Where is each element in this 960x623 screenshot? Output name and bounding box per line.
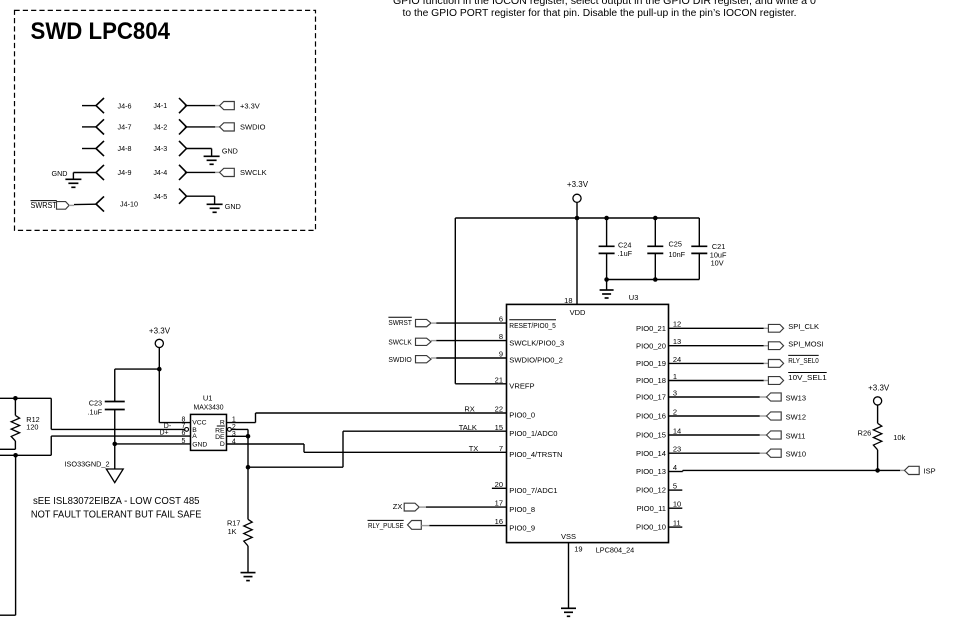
connector pin J4-1 xyxy=(179,98,187,113)
wire U3 pin 8 xyxy=(436,340,506,342)
svg-text:24: 24 xyxy=(673,355,681,364)
junction C23/GND pin xyxy=(112,442,117,447)
wire U3 pin 20 xyxy=(492,487,507,489)
junction R12 top xyxy=(13,396,18,401)
svg-text:C23: C23 xyxy=(89,399,102,408)
pin name RE (U1) xyxy=(215,426,225,434)
svg-text:NOT FAULT TOLERANT BUT FAIL SA: NOT FAULT TOLERANT BUT FAIL SAFE xyxy=(31,508,202,520)
inversion bubble U1 pin 7 (B) xyxy=(185,428,189,432)
wire U3 to SW11 xyxy=(669,434,767,436)
svg-text:VREFP: VREFP xyxy=(509,382,534,391)
svg-text:12: 12 xyxy=(673,320,681,329)
svg-text:PIO0_14: PIO0_14 xyxy=(636,449,666,458)
svg-text:10nF: 10nF xyxy=(669,250,686,259)
svg-text:SWCLK: SWCLK xyxy=(240,168,267,177)
connector pin J4-6 xyxy=(82,98,104,113)
ground (decoupling caps) xyxy=(600,280,614,299)
svg-text:RLY_PULSE: RLY_PULSE xyxy=(368,521,404,530)
svg-text:15: 15 xyxy=(495,423,503,432)
wire J4-1 to +3.3V tag xyxy=(185,105,220,107)
svg-text:VCC: VCC xyxy=(192,420,206,427)
net tag SW12 xyxy=(767,412,782,420)
ground (J4-9) xyxy=(65,173,81,188)
wire D+ rail xyxy=(0,454,51,456)
ground (J4-3) xyxy=(204,156,220,164)
wire TX (U1 D to U3 PIO0_4) xyxy=(227,444,305,452)
svg-text:PIO0_12: PIO0_12 xyxy=(636,486,666,495)
capacitor C21 xyxy=(691,218,707,280)
svg-text:PIO0_16: PIO0_16 xyxy=(636,412,666,421)
net tag SWRST (U3) xyxy=(388,317,436,327)
svg-text:U3: U3 xyxy=(629,293,639,302)
note text ISL83072 xyxy=(31,495,202,521)
resistor R17 xyxy=(244,467,252,572)
svg-text:8: 8 xyxy=(499,332,503,341)
junction at C24 xyxy=(604,216,609,221)
junction at C25 xyxy=(653,216,658,221)
junction cap bus at C24 xyxy=(604,277,609,282)
svg-text:1: 1 xyxy=(673,372,677,381)
wire U3 to SPI_CLK xyxy=(669,327,769,329)
IC U3 LPC804 body xyxy=(507,304,669,542)
svg-text:PIO0_20: PIO0_20 xyxy=(636,341,666,350)
dashed frame SWD LPC804 block xyxy=(15,10,316,230)
stub U3 pin 10 xyxy=(669,507,683,509)
net tag SW13 xyxy=(767,393,782,401)
pin name RESET/PIO0_5 xyxy=(509,320,556,330)
svg-text:SWDIO: SWDIO xyxy=(388,355,412,364)
wire D- rail xyxy=(0,397,51,399)
svg-text:VDD: VDD xyxy=(570,308,586,317)
wire U3 to SPI_MOSI xyxy=(669,345,769,347)
capacitor C23 xyxy=(105,369,125,469)
net tag RLY_PULSE xyxy=(368,520,430,529)
svg-text:GND: GND xyxy=(52,169,68,178)
svg-text:PIO0_1/ADC0: PIO0_1/ADC0 xyxy=(509,429,557,438)
connector pin J4-10 xyxy=(96,196,104,211)
wire RX (U1 R to U3 PIO0_0) xyxy=(227,413,256,423)
wire U3 pin 17 xyxy=(426,506,507,508)
net tag 10V_SEL1 xyxy=(768,377,783,385)
svg-text:10k: 10k xyxy=(893,433,905,442)
wire U3 to RLY_SEL0 xyxy=(669,362,769,364)
junction R17 top xyxy=(246,465,251,470)
svg-text:1K: 1K xyxy=(228,527,237,536)
svg-text:J4-7: J4-7 xyxy=(118,123,132,132)
wire J4-4 to SWCLK tag xyxy=(185,171,220,173)
net tag SWCLK (U3) xyxy=(388,338,436,347)
svg-text:R26: R26 xyxy=(858,428,872,437)
net tag RLY_SEL0 xyxy=(768,360,783,368)
svg-text:RESET/PIO0_5: RESET/PIO0_5 xyxy=(509,321,556,330)
svg-text:VSS: VSS xyxy=(561,532,576,541)
label 10V_SEL1 xyxy=(788,373,827,382)
svg-text:C24: C24 xyxy=(618,240,631,249)
wire J4-3 to ground xyxy=(187,149,212,157)
svg-text:PIO0_13: PIO0_13 xyxy=(636,467,666,476)
stub U3 pin 11 xyxy=(669,526,683,528)
IC U1 MAX3430 body xyxy=(191,414,227,450)
svg-text:LPC804_24: LPC804_24 xyxy=(596,546,635,555)
svg-text:PIO0_15: PIO0_15 xyxy=(636,431,666,440)
wire VSS pin 19 xyxy=(568,543,570,609)
svg-text:10: 10 xyxy=(673,500,681,509)
svg-text:7: 7 xyxy=(499,444,503,453)
net tag SW11 xyxy=(767,431,782,439)
connector pin J4-8 xyxy=(82,141,104,156)
wire U1 GND pin 5 xyxy=(115,443,191,445)
svg-text:J4-2: J4-2 xyxy=(153,123,167,132)
ground (R17) xyxy=(241,573,256,581)
svg-text:SWRST: SWRST xyxy=(31,201,58,210)
capacitor C24 xyxy=(599,218,615,280)
net tag ISP xyxy=(905,466,920,474)
wire U3 to SW12 xyxy=(669,415,767,417)
svg-text:+3.3V: +3.3V xyxy=(240,101,260,110)
net tag SWCLK (J4-4) xyxy=(220,168,235,176)
wire U3 to 10V_SEL1 xyxy=(669,380,769,382)
stub U3 pin 5 xyxy=(669,489,683,491)
svg-text:J4-3: J4-3 xyxy=(153,144,167,153)
wire VREFP feed xyxy=(455,218,506,384)
svg-text:ZX: ZX xyxy=(393,502,403,511)
capacitor C25 xyxy=(647,218,663,280)
svg-text:GND: GND xyxy=(192,441,207,448)
svg-text:D: D xyxy=(220,441,225,448)
wire VDD pin 18 xyxy=(576,218,578,304)
svg-text:.1uF: .1uF xyxy=(88,408,103,417)
svg-text:SPI_MOSI: SPI_MOSI xyxy=(788,340,823,349)
svg-text:RLY_SEL0: RLY_SEL0 xyxy=(788,356,819,365)
wire J4-5 to ground xyxy=(187,196,215,204)
note text: GPIO register instructions xyxy=(393,0,816,19)
svg-text:PIO0_8: PIO0_8 xyxy=(509,505,535,514)
svg-text:to the GPIO PORT register for: to the GPIO PORT register for that pin. … xyxy=(403,8,797,19)
svg-text:10V_SEL1: 10V_SEL1 xyxy=(788,373,827,382)
svg-text:.1uF: .1uF xyxy=(618,249,633,258)
svg-text:4: 4 xyxy=(673,463,677,472)
power symbol +3.3V (U1) xyxy=(149,326,171,369)
svg-text:+3.3V: +3.3V xyxy=(868,384,890,393)
svg-text:18: 18 xyxy=(564,296,572,305)
wire U3 pin 15 xyxy=(343,430,507,432)
svg-text:22: 22 xyxy=(495,405,503,414)
net tag SWRST xyxy=(31,201,75,211)
svg-text:3: 3 xyxy=(673,388,677,397)
junction R26/ISP xyxy=(875,468,880,473)
svg-text:J4-6: J4-6 xyxy=(118,101,132,110)
svg-text:SW10: SW10 xyxy=(786,450,806,459)
net tag +3.3V (J4-1) xyxy=(220,102,235,110)
svg-text:J4-9: J4-9 xyxy=(118,168,132,177)
wire DE to TALK/R17 xyxy=(248,431,343,467)
svg-text:+3.3V: +3.3V xyxy=(149,326,171,335)
svg-text:10V: 10V xyxy=(711,259,724,268)
svg-text:17: 17 xyxy=(495,499,503,508)
ground ISO33GND_2 triangle xyxy=(106,469,123,483)
wire U3 pin 16 xyxy=(429,525,506,527)
connector pin J4-2 xyxy=(179,119,187,134)
svg-text:PIO0_19: PIO0_19 xyxy=(636,359,666,368)
svg-text:ISO33GND_2: ISO33GND_2 xyxy=(65,460,110,469)
junction cap bus at C25 xyxy=(653,277,658,282)
wire RE to DE junction xyxy=(231,429,248,436)
svg-text:5: 5 xyxy=(673,482,677,491)
svg-text:SWCLK: SWCLK xyxy=(388,338,411,347)
svg-text:GND: GND xyxy=(222,146,238,155)
net tag SWDIO (J4-2) xyxy=(220,123,235,131)
net tag ZX xyxy=(393,502,426,511)
svg-text:16: 16 xyxy=(495,517,503,526)
svg-text:PIO0_0: PIO0_0 xyxy=(509,411,535,420)
net tag SPI_CLK xyxy=(768,324,783,332)
net tag SWDIO (U3) xyxy=(388,355,436,364)
wire left branch down xyxy=(0,455,16,615)
power symbol +3.3V (VDD rail) xyxy=(567,180,589,218)
wire U3 pin 22 xyxy=(256,412,507,414)
svg-text:GPIO function in the IOCON reg: GPIO function in the IOCON register, sel… xyxy=(393,0,816,7)
svg-text:SW13: SW13 xyxy=(786,393,806,402)
svg-text:SWRST: SWRST xyxy=(388,318,412,327)
svg-text:13: 13 xyxy=(673,337,681,346)
wire U3 pin 6 xyxy=(436,322,506,324)
svg-text:TX: TX xyxy=(469,444,479,453)
wire U3 to SW10 xyxy=(669,452,767,454)
svg-text:9: 9 xyxy=(499,350,503,359)
svg-text:J4-5: J4-5 xyxy=(153,192,167,201)
ground (VSS) xyxy=(561,608,576,616)
svg-text:J4-10: J4-10 xyxy=(120,200,138,209)
net tag SPI_MOSI xyxy=(768,342,783,350)
svg-text:19: 19 xyxy=(574,545,582,554)
wire +3.3V rail xyxy=(455,217,699,219)
svg-text:PIO0_18: PIO0_18 xyxy=(636,376,666,385)
label RLY_SEL0 xyxy=(788,355,819,364)
svg-text:U1: U1 xyxy=(203,394,213,403)
svg-text:SW12: SW12 xyxy=(786,412,806,421)
connector pin J4-5 xyxy=(179,189,187,204)
svg-text:J4-4: J4-4 xyxy=(153,168,167,177)
junction D+ branch xyxy=(13,453,18,458)
svg-text:PIO0_11: PIO0_11 xyxy=(637,504,666,513)
connector pin J4-9 xyxy=(96,165,104,180)
svg-text:14: 14 xyxy=(673,426,681,435)
svg-text:C25: C25 xyxy=(669,239,682,248)
svg-text:21: 21 xyxy=(495,375,503,384)
junction at VDD drop xyxy=(575,216,580,221)
wire J4-9 to ground xyxy=(73,172,96,174)
wire D+ to U1 A xyxy=(51,436,190,455)
svg-text:GND: GND xyxy=(225,202,241,211)
connector pin J4-4 xyxy=(179,165,187,180)
wire DE (U1 pin 3) xyxy=(227,435,249,437)
power symbol +3.3V (R26) xyxy=(868,384,890,424)
connector pin J4-7 xyxy=(82,119,104,134)
junction +3.3V/C23 xyxy=(157,367,162,372)
svg-text:PIO0_21: PIO0_21 xyxy=(636,324,666,333)
resistor R26 xyxy=(873,423,881,470)
wire +3.3V to C23 and VCC xyxy=(115,369,191,423)
svg-text:6: 6 xyxy=(499,315,503,324)
inversion bubble U1 pin 2 (RE) xyxy=(228,428,232,432)
wire SWRST to J4-10 xyxy=(74,203,96,205)
svg-text:SWDIO: SWDIO xyxy=(240,123,266,132)
junction RE/DE xyxy=(246,434,251,439)
svg-text:MAX3430: MAX3430 xyxy=(194,403,224,412)
svg-text:+3.3V: +3.3V xyxy=(567,180,589,189)
svg-text:SPI_CLK: SPI_CLK xyxy=(788,322,819,331)
svg-text:A: A xyxy=(192,433,197,440)
svg-text:SW11: SW11 xyxy=(786,431,806,440)
svg-text:PIO0_10: PIO0_10 xyxy=(636,523,666,532)
svg-text:TALK: TALK xyxy=(459,423,477,432)
svg-text:SWCLK/PIO0_3: SWCLK/PIO0_3 xyxy=(509,338,564,347)
svg-text:ISP: ISP xyxy=(924,466,936,475)
svg-text:PIO0_7/ADC1: PIO0_7/ADC1 xyxy=(509,486,557,495)
svg-text:PIO0_17: PIO0_17 xyxy=(636,393,666,402)
svg-text:11: 11 xyxy=(673,519,681,528)
svg-text:2: 2 xyxy=(673,407,677,416)
ground (J4-5) xyxy=(207,204,223,212)
svg-text:J4-1: J4-1 xyxy=(153,101,167,110)
svg-text:PIO0_4/TRSTN: PIO0_4/TRSTN xyxy=(509,450,562,459)
wire PIO0_13 to ISP xyxy=(669,470,905,471)
net tag SW10 xyxy=(767,449,782,457)
svg-text:PIO0_9: PIO0_9 xyxy=(509,523,535,532)
wire D- to U1 B xyxy=(51,398,184,429)
wire capacitor ground bus xyxy=(607,279,700,281)
svg-text:6: 6 xyxy=(181,430,185,437)
svg-text:sEE ISL83072EIBZA - LOW COST 4: sEE ISL83072EIBZA - LOW COST 485 xyxy=(33,495,200,507)
svg-text:SWD LPC804: SWD LPC804 xyxy=(31,18,171,45)
wire U3 to SW13 xyxy=(669,396,767,398)
svg-text:120: 120 xyxy=(26,422,38,431)
connector pin J4-3 xyxy=(179,141,187,156)
svg-text:SWDIO/PIO0_2: SWDIO/PIO0_2 xyxy=(509,356,563,365)
wire J4-2 to SWDIO tag xyxy=(185,126,220,128)
svg-text:J4-8: J4-8 xyxy=(118,144,132,153)
wire U3 pin 7 xyxy=(304,451,507,453)
svg-text:D+: D+ xyxy=(160,430,169,437)
svg-text:20: 20 xyxy=(495,480,503,489)
svg-text:RX: RX xyxy=(464,405,474,414)
resistor R12 xyxy=(0,398,20,449)
svg-text:23: 23 xyxy=(673,445,681,454)
wire U3 pin 9 xyxy=(436,357,506,359)
